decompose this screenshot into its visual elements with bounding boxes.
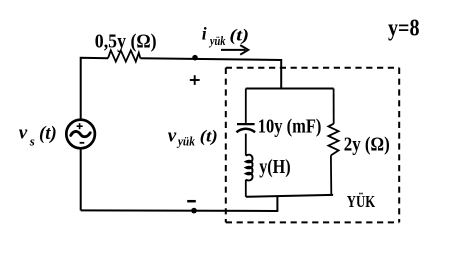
- wire: left vertical upper segment and top-left corner to resistor: [81, 58, 108, 120]
- wire: inner right branch upper: [333, 89, 335, 124]
- capacitor C1 top plate: [237, 123, 255, 125]
- node dot: top junction: [192, 55, 198, 61]
- inductor L1 coil: [246, 155, 253, 181]
- resistor R2 (2y ohm) vertical zigzag: [328, 124, 338, 156]
- wire: top horizontal from resistor to right corner: [140, 58, 281, 60]
- wire: left vertical lower segment: [80, 148, 82, 210]
- wire: inner top horizontal: [246, 88, 334, 90]
- capacitor C1 curved plate: [236, 129, 255, 132]
- wire: vertical drop into load box: [280, 59, 282, 89]
- dashed box: YÜK load boundary: [226, 68, 399, 223]
- label + polarity of v_yük: [190, 79, 200, 81]
- svg-text:0,5y (Ω): 0,5y (Ω): [95, 31, 157, 53]
- svg-text:y(H): y(H): [259, 156, 290, 178]
- wire: inductor to inner bottom: [245, 180, 247, 197]
- arrow: current direction: [221, 49, 246, 51]
- voltage source VS circle: [66, 120, 95, 149]
- wire: bottom horizontal main: [81, 209, 278, 212]
- node dot: bottom junction: [191, 208, 197, 214]
- label − polarity of v_yük: [187, 200, 196, 203]
- wire: inner bottom horizontal: [246, 195, 333, 197]
- wire: connector from bottom wire up into load: [276, 196, 278, 212]
- wire: between capacitor and inductor: [245, 134, 247, 156]
- voltage source sine wave: [71, 131, 90, 136]
- wire: inner left branch upper: [245, 89, 247, 123]
- voltage source - mark: [80, 142, 85, 144]
- svg-text:y=8: y=8: [388, 15, 420, 41]
- svg-text:YÜK: YÜK: [347, 192, 376, 211]
- resistor R1 (0,5y ohm) zigzag: [108, 50, 140, 61]
- voltage source + mark: [77, 125, 83, 127]
- wire: inner right branch lower: [330, 155, 332, 195]
- svg-text:2y (Ω): 2y (Ω): [344, 133, 390, 155]
- svg-text:10y (mF): 10y (mF): [258, 115, 322, 137]
